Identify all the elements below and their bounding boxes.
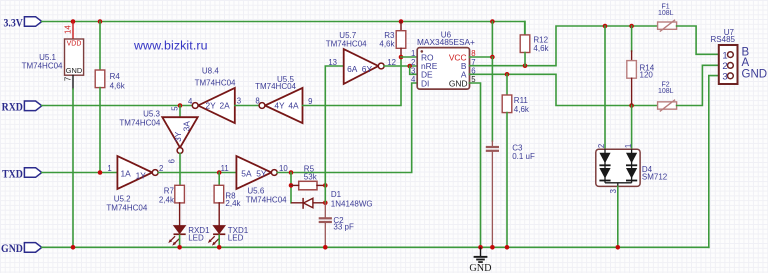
label R12 [533,36,548,45]
wire U6 B to top route [470,26,658,66]
node GND / D4 [616,245,621,250]
wire VCC to C3 [491,57,493,141]
node 3.3V / R4 [98,19,103,24]
label U7 [724,28,735,37]
label U5.7 [339,31,356,40]
svg-text:120: 120 [640,70,654,79]
wire U5.1 GND down [72,89,74,247]
pin number 5 of U5.3 [170,106,179,111]
svg-text:U5.2: U5.2 [114,194,131,203]
svg-text:LED: LED [188,233,204,242]
pin number 1 of U6 [411,49,415,58]
label U8.4 [202,67,219,76]
label TM74HC04 (U5.6) [246,196,287,205]
wire A to R11 [506,74,508,95]
pin number 10 of U5.6 [279,164,288,173]
label SM712 (D4) [642,173,668,182]
label R4 [110,72,121,81]
svg-text:3Y: 3Y [173,131,183,142]
svg-text:5: 5 [170,106,179,111]
svg-text:0.1 uF: 0.1 uF [512,152,535,161]
svg-text:RS485: RS485 [711,35,736,44]
svg-text:3A: 3A [182,121,192,132]
label R7 [164,186,175,195]
resistor R8 [214,185,224,203]
svg-text:5A: 5A [241,168,252,178]
svg-text:1: 1 [107,164,111,173]
svg-text:13: 13 [328,58,337,67]
pin number 2 of U6 [411,58,415,67]
wire R8 to LED TXD1 [218,203,220,226]
node A / R11 [505,72,510,77]
svg-text:8: 8 [255,96,259,105]
wire D4 pin3 to GND [617,186,619,247]
node R5 right / delay node [323,183,328,188]
svg-text:4Y: 4Y [274,100,285,110]
label U5.3 [143,110,160,119]
pin name B of U7 [742,47,750,59]
capacitor C2 33 pF [319,217,332,223]
pin number 2 of D4 [597,144,606,148]
svg-text:6: 6 [168,159,177,163]
wire U5.1 pin14 lead [72,22,74,40]
wire C3 to GND [491,152,493,247]
wire B to D4 pin2 [604,26,606,149]
node GND / U6 pin5 [478,245,483,250]
svg-text:A: A [742,57,750,69]
pin number 9 of U5.5 [308,97,312,106]
node nTXD / R8 [217,170,222,175]
svg-text:1A: 1A [121,168,132,178]
node DI / R5 [289,170,294,175]
svg-text:3: 3 [411,67,415,76]
label MAX3485ESA+ (U6) [417,37,475,47]
svg-text:R12: R12 [533,36,548,45]
svg-text:TM74HC04: TM74HC04 [106,204,147,213]
pin number 1 of U5.2 [107,164,111,173]
wire R14 bottom lead to A route [631,78,633,105]
svg-text:U8.4: U8.4 [202,67,219,76]
node nRE / DE [407,64,412,69]
svg-text:2Y: 2Y [206,100,217,110]
label U5.1 [39,53,56,62]
svg-text:LED: LED [228,233,244,242]
wire C2 to GND [324,223,326,247]
svg-text:4,6k: 4,6k [110,81,126,90]
node TXD / R4 [98,170,103,175]
pin number 7 of U6 [471,58,475,67]
pin number 3 of U6 [411,67,415,76]
port GND [1,242,42,255]
node GND / LED RXD1 [177,245,182,250]
svg-text:4,6k: 4,6k [379,40,395,49]
TVS diode D4 SM712 [596,149,640,186]
label 4,6k (R3) [379,40,395,49]
svg-text:SM712: SM712 [642,173,668,182]
pin number 6 of U6 [471,67,475,76]
svg-text:R4: R4 [110,72,121,81]
label R5 [304,164,315,173]
svg-text:14: 14 [64,25,73,34]
pin number 1 of U7 [722,50,727,61]
wire GND rail to U7 pin3 [709,76,719,248]
logo text www.bizkit.ru [133,39,208,53]
wire R12 from 3.3V rail [524,22,526,35]
pin number 4 of U6 [411,75,416,84]
svg-text:4A: 4A [288,100,299,110]
power block U5.1 TM74HC04 [65,39,84,75]
node GND / U5.1 [71,245,76,250]
node GND / C3 [490,245,495,250]
svg-text:RXD: RXD [2,101,23,114]
svg-text:2,4k: 2,4k [159,195,175,204]
wire C3 top lead [491,141,493,146]
svg-text:DI: DI [421,78,429,88]
svg-text:1: 1 [411,49,415,58]
label U5.2 [114,194,131,203]
node A / R14 / D4 pin1 [629,103,634,108]
wire B route to R14 [631,26,633,51]
wire R4 to TXD net [99,88,101,173]
label RS485 (U7) [711,35,736,44]
wire R5 right lead [317,184,325,186]
inverter U5.5 TM74HC04 [259,88,302,123]
node B / R14 [629,24,634,29]
node 3.3V / U6 VCC [490,19,495,24]
label R3 [384,31,395,40]
svg-text:5Y: 5Y [256,168,267,178]
pin number 13 of U5.7 [328,58,337,67]
resistor R7 [175,185,185,203]
wire C2 top lead [324,203,326,217]
wire R12 to B [524,53,526,66]
svg-text:U5.6: U5.6 [247,186,264,195]
pin number 2 of U5.2 [159,164,163,173]
svg-text:TM74HC04: TM74HC04 [246,196,287,205]
pin number 3 of U8.4 [237,96,241,105]
wire LED RXD1 to GND [179,235,181,247]
label TM74HC04 (U5.5) [255,82,296,91]
resistor R3 [396,31,406,49]
wire TXD net [42,172,118,174]
svg-text:1: 1 [624,144,633,148]
node 3.3V / U5.1 VDD [71,19,76,24]
svg-text:7: 7 [64,77,73,81]
IC U6 MAX3485ESA+ [417,48,469,90]
wire RO to U6 pin1 [401,56,417,58]
LED TXD1 [208,226,249,246]
svg-text:3: 3 [237,96,241,105]
wire U8.4 input to U5.5 output [235,105,259,107]
svg-text:GND: GND [449,78,468,88]
svg-text:4: 4 [188,97,193,106]
svg-text:TM74HC04: TM74HC04 [195,78,236,87]
LED RXD1 [168,226,210,246]
node 3.3V / R3 [399,19,404,24]
inverter U5.7 TM74HC04 [344,49,384,84]
label TM74HC04 (U5.2) [106,204,147,213]
wire GND rail [42,246,709,248]
wire U5.6 output / DI net [277,83,417,173]
svg-text:GND: GND [469,263,491,273]
pin number 2 of U7 [722,61,727,72]
label TM74HC04 (U5.1) [22,62,63,71]
wire R14 top lead [631,51,633,61]
node RXD / U5.3 input [178,103,183,108]
label D1 [331,190,342,199]
node GND / LED TXD1 [217,245,222,250]
svg-text:1Y: 1Y [136,170,147,180]
wire F2 to U7 pin2 [677,65,719,105]
svg-text:108L: 108L [658,10,674,17]
pin number 3 of D4 [609,189,618,193]
label D4 [642,165,653,174]
svg-text:4: 4 [411,75,416,84]
svg-text:GND: GND [1,242,23,255]
svg-text:TM74HC04: TM74HC04 [326,40,367,49]
node D1 right [323,201,328,206]
svg-text:1: 1 [722,50,727,61]
pin number 5 of U6 [471,75,476,84]
svg-text:9: 9 [308,97,312,106]
inverter U5.6 TM74HC04 [236,156,277,189]
label U5.6 [247,186,264,195]
wire R11 to GND [506,113,508,248]
inverter U8.4 TM74HC04 [192,88,235,123]
wire F1 to U7 pin1 [677,26,719,54]
svg-text:6A: 6A [347,64,358,74]
svg-text:GND: GND [742,69,768,81]
wire U5.3 output to R7 [179,153,181,185]
wire U5.7 output to nRE [384,65,417,67]
label R11 [514,96,529,105]
wire R7 to LED RXD1 [179,203,181,226]
svg-text:R11: R11 [514,96,529,105]
svg-text:TM74HC04: TM74HC04 [119,118,160,127]
wire LED TXD1 to GND [218,235,220,247]
resistor R12 [520,35,530,53]
label 53k (R5) [304,173,318,182]
svg-text:TM74HC04: TM74HC04 [255,82,296,91]
svg-text:3.3V: 3.3V [3,16,22,29]
pin number 14 of U5.1 [64,25,73,34]
resistor R11 [502,95,512,113]
label 1N4148WG (D1) [331,199,373,208]
pin number 1 of D4 [624,144,633,148]
svg-text:6Y: 6Y [362,64,373,74]
pin number 6 of U5.3 [168,159,177,163]
svg-text:11: 11 [221,164,229,173]
node RO / R3 [399,55,404,60]
label 120 (R14) [640,70,654,79]
pin number 11 of U5.6 [221,164,229,173]
label C3 [512,144,523,153]
wire R3 to RO [400,48,402,57]
label TM74HC04 (U8.4) [195,78,236,87]
pin name A of U7 [742,57,750,69]
port 3.3V [3,16,41,29]
resistor R5 [299,181,317,190]
port RXD [2,101,42,114]
svg-text:TM74HC04: TM74HC04 [22,62,63,71]
node R5 left / D1 left [289,183,294,188]
wire R5 left lead [291,184,299,186]
svg-text:33 pF: 33 pF [333,222,354,231]
wire U6 GND pin to rail [470,83,481,247]
wire RXD net [42,105,193,107]
wire U5.5 input to RO net [303,57,402,106]
label 33 pF (C2) [333,222,354,231]
wire U6 VCC to 3.3V [470,22,493,58]
svg-text:108L: 108L [658,88,674,95]
pin number 7 of U5.1 [64,77,73,81]
inverter U5.2 TM74HC04 [117,156,158,189]
pin name GND of U7 [742,69,768,81]
label R8 [225,191,236,200]
svg-text:2A: 2A [220,100,231,110]
wire 3.3V to R4 [99,22,101,71]
port TXD [2,168,42,181]
wire delay node vertical [324,185,326,202]
svg-text:3: 3 [609,189,618,193]
svg-text:4,6k: 4,6k [533,44,549,53]
svg-text:2,4k: 2,4k [225,199,241,208]
label 0.1 uF (C3) [512,152,535,161]
wire delay node to U5.7 input [325,66,343,185]
svg-text:VDD: VDD [67,41,82,48]
label U6 [441,31,452,40]
label C2 [333,216,344,225]
ground symbol [469,247,491,273]
node GND / R11 [505,245,510,250]
label 4,6k (R12) [533,44,549,53]
wire DI net to R5 left [290,173,292,203]
svg-text:U5.1: U5.1 [39,53,56,62]
pin number 8 of U5.5 [255,96,259,105]
label TM74HC04 (U5.3) [119,118,160,127]
svg-text:4,6k: 4,6k [514,105,530,114]
label TM74HC04 (U5.7) [326,40,367,49]
resistor R14 [627,61,637,79]
label 2,4k (R7) [159,195,175,204]
pin number 4 of U8.4 [188,97,193,106]
diode D1 1N4148WG [291,198,325,209]
svg-text:U5.3: U5.3 [143,110,160,119]
wire 3.3V rail [42,22,525,35]
pin number 8 of U6 [471,49,475,58]
svg-text:MAX3485ESA+: MAX3485ESA+ [417,37,475,47]
svg-text:53k: 53k [304,173,318,182]
node B / D4 pin2 [603,24,608,29]
svg-text:1N4148WG: 1N4148WG [331,199,373,208]
svg-text:2: 2 [597,144,606,148]
pin number 3 of U7 [722,72,727,83]
label 4,6k (R11) [514,105,530,114]
wire RXD to U5.3 input [179,106,181,118]
label R14 [640,64,655,73]
node VCC / C3 [490,55,495,60]
node B / R12 [523,63,528,68]
wire A to D4 pin1 [631,106,633,150]
wire nRE-DE tie [410,66,418,74]
svg-text:GND: GND [66,66,82,75]
wire U5.1 pin7 lead [72,75,74,89]
wire 3.3V to R3 [400,22,402,31]
wire nTXD to R8 [218,173,220,186]
svg-text:R7: R7 [164,186,175,195]
svg-text:www.bizkit.ru: www.bizkit.ru [133,39,208,53]
pin number 12 of U5.7 [387,58,396,67]
fuse F2 108L [658,81,677,111]
svg-text:TXD: TXD [2,168,23,181]
label 2,4k (R8) [225,199,241,208]
connector U7 RS485 [719,45,738,84]
svg-text:D1: D1 [331,190,342,199]
label 4,6k (R4) [110,81,126,90]
wire U6 A to lower route [470,74,658,105]
fuse F1 108L [658,4,677,32]
svg-text:2: 2 [722,61,727,72]
label U5.5 [277,75,294,84]
resistor R4 [95,70,105,88]
inverter U5.3 TM74HC04 (down) [162,117,197,153]
wire U5.2 output to U5.6 input [158,172,236,174]
svg-text:3: 3 [722,72,727,83]
capacitor C3 0.1 uF [486,146,499,152]
node GND / C2 [323,245,328,250]
